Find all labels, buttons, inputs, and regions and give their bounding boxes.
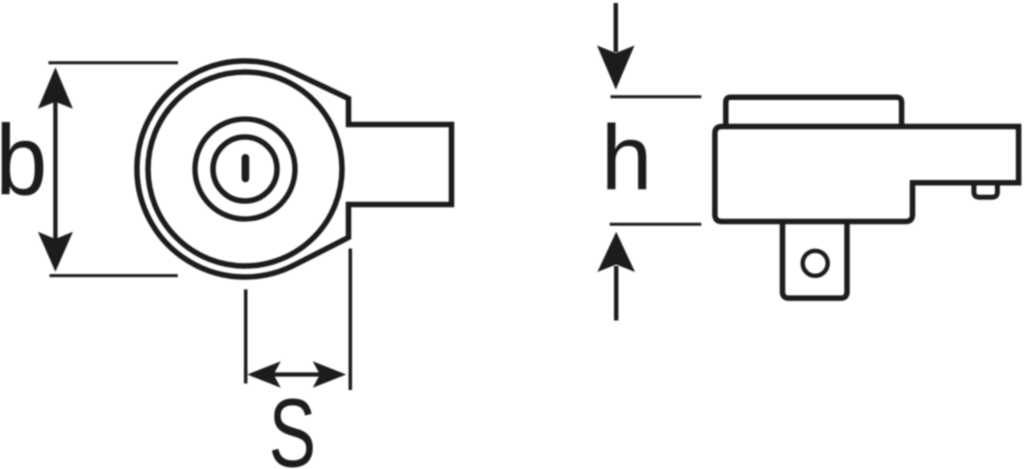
dimension b top arrowhead bbox=[38, 67, 73, 109]
svg-text:h: h bbox=[601, 107, 652, 209]
dimension S right extension line bbox=[349, 249, 353, 391]
dimension h top arrow shaft bbox=[614, 3, 618, 52]
side view square drive bbox=[783, 222, 848, 299]
dimension b bottom extension line bbox=[50, 274, 178, 277]
front view center slot bbox=[242, 154, 250, 182]
side view nub bbox=[974, 183, 998, 198]
front view body outline with tang bbox=[137, 61, 452, 277]
front view inner circle bbox=[213, 137, 277, 201]
side view cap bbox=[726, 97, 902, 126]
dimension S right arrowhead bbox=[313, 361, 346, 388]
dimension h top line bbox=[611, 95, 702, 98]
front view inner ring bbox=[148, 72, 342, 266]
front view middle circle bbox=[195, 119, 295, 219]
svg-text:S: S bbox=[269, 380, 316, 469]
dimension S left arrowhead bbox=[247, 361, 280, 388]
dimension h top arrowhead bbox=[597, 46, 635, 90]
dimension h bottom arrow shaft bbox=[614, 266, 618, 321]
dimension h bottom line bbox=[610, 223, 702, 226]
svg-text:b: b bbox=[0, 105, 47, 216]
side view body and tang outline bbox=[715, 127, 1019, 222]
dimension b bottom arrowhead bbox=[38, 232, 73, 272]
dimension b arrow shaft bbox=[53, 100, 57, 243]
dimension b top extension line bbox=[49, 61, 179, 64]
dimension h bottom arrowhead bbox=[597, 232, 635, 272]
side view pin hole bbox=[803, 251, 828, 276]
dimension S left extension line bbox=[244, 289, 248, 383]
dimension S arrow line bbox=[252, 372, 341, 376]
